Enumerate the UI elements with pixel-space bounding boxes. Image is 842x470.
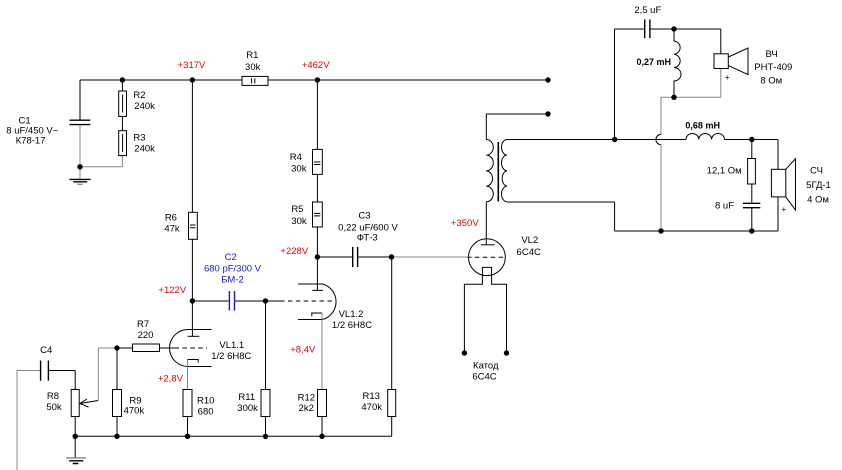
svg-text:R7: R7 — [137, 319, 149, 330]
svg-text:К78-17: К78-17 — [16, 136, 46, 147]
svg-text:2k2: 2k2 — [299, 403, 314, 414]
svg-text:VL2: VL2 — [521, 235, 538, 246]
svg-text:VL1.2: VL1.2 — [339, 309, 364, 320]
svg-text:R1: R1 — [246, 50, 258, 61]
svg-text:470k: 470k — [124, 406, 145, 417]
svg-text:ВЧ: ВЧ — [765, 49, 777, 60]
svg-text:+462V: +462V — [302, 60, 330, 71]
svg-text:R4: R4 — [290, 152, 302, 163]
svg-text:8 uF: 8 uF — [715, 200, 734, 211]
svg-text:5ГД-1: 5ГД-1 — [806, 180, 831, 191]
svg-text:C3: C3 — [358, 210, 370, 221]
svg-text:СЧ: СЧ — [810, 166, 823, 177]
svg-text:R11: R11 — [238, 392, 255, 403]
svg-text:220: 220 — [138, 330, 154, 341]
svg-text:30k: 30k — [245, 62, 261, 73]
svg-text:ФТ-3: ФТ-3 — [357, 233, 378, 244]
svg-text:1/2 6Н8С: 1/2 6Н8С — [332, 320, 372, 331]
svg-text:470k: 470k — [361, 402, 382, 413]
svg-text:R6: R6 — [165, 212, 177, 223]
svg-text:0,27 mH: 0,27 mH — [637, 57, 672, 67]
svg-text:+228V: +228V — [280, 246, 308, 257]
svg-text:VL1.1: VL1.1 — [219, 340, 244, 351]
svg-text:12,1 Ом: 12,1 Ом — [707, 166, 742, 177]
svg-text:4 Ом: 4 Ом — [807, 194, 829, 205]
svg-text:+122V: +122V — [158, 285, 186, 296]
svg-text:30k: 30k — [291, 163, 307, 174]
svg-text:240k: 240k — [134, 101, 155, 112]
svg-text:30k: 30k — [291, 216, 307, 227]
svg-text:680 pF/300 V: 680 pF/300 V — [204, 263, 262, 274]
svg-text:2,5 uF: 2,5 uF — [634, 5, 661, 16]
svg-text:240k: 240k — [134, 143, 155, 154]
svg-text:R5: R5 — [291, 204, 303, 215]
svg-text:Катод: Катод — [473, 360, 499, 371]
svg-text:R12: R12 — [298, 392, 315, 403]
svg-text:R13: R13 — [362, 391, 379, 402]
svg-text:300k: 300k — [237, 403, 258, 414]
svg-text:50k: 50k — [46, 402, 62, 413]
svg-text:БМ-2: БМ-2 — [221, 275, 244, 286]
svg-text:+: + — [725, 73, 730, 82]
svg-text:+: + — [781, 205, 786, 214]
svg-text:R3: R3 — [133, 132, 145, 143]
svg-text:R8: R8 — [47, 391, 59, 402]
svg-text:R9: R9 — [129, 395, 141, 406]
svg-text:C4: C4 — [40, 345, 52, 356]
svg-text:+350V: +350V — [451, 218, 479, 229]
svg-text:+8,4V: +8,4V — [290, 345, 316, 356]
svg-text:+2,8V: +2,8V — [158, 373, 184, 384]
svg-text:+317V: +317V — [178, 60, 206, 71]
svg-text:C2: C2 — [225, 252, 237, 263]
svg-text:R10: R10 — [197, 395, 214, 406]
svg-text:6С4С: 6С4С — [472, 371, 496, 382]
svg-text:680: 680 — [198, 406, 214, 417]
svg-text:47k: 47k — [164, 223, 180, 234]
svg-text:1/2 6Н8С: 1/2 6Н8С — [211, 351, 251, 362]
svg-text:8 Ом: 8 Ом — [760, 76, 782, 87]
svg-text:0,68 mH: 0,68 mH — [685, 120, 720, 130]
svg-text:РНТ-409: РНТ-409 — [754, 62, 792, 73]
svg-text:6С4С: 6С4С — [517, 247, 541, 258]
svg-text:R2: R2 — [133, 90, 145, 101]
